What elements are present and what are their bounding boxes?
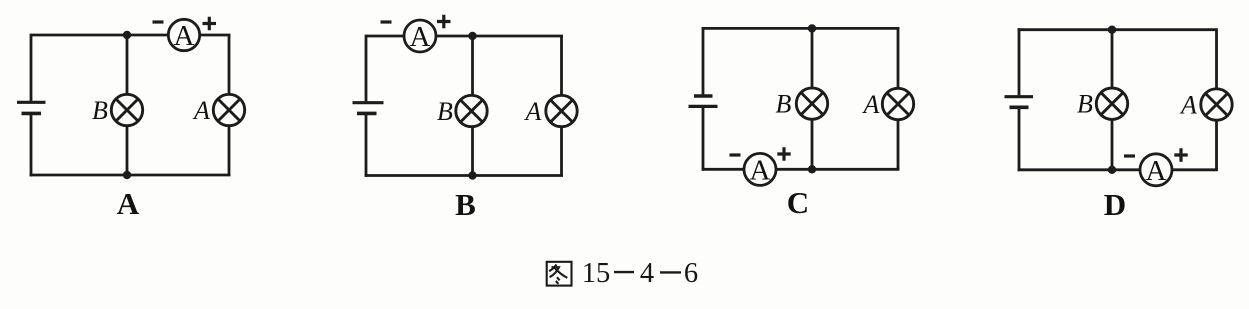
svg-text:B: B — [1077, 90, 1093, 119]
lamp A (circuit B) — [546, 95, 577, 126]
svg-text:C: C — [787, 185, 809, 220]
wire: bottom wire (circuit B) — [365, 174, 563, 177]
wire: top wire right segment (circuit B) — [436, 35, 563, 38]
wire: middle branch lower (circuit B) — [471, 127, 474, 176]
caption: first dash — [614, 271, 634, 273]
wire: bottom wire left segment (circuit C) — [702, 168, 744, 171]
wire: middle branch lower (circuit C) — [811, 119, 814, 169]
label: minus sign of ammeter (circuit D) — [1124, 154, 1135, 157]
ammeter A1 (circuit C) — [744, 153, 776, 186]
svg-text:A: A — [117, 186, 140, 221]
wire: top wire left segment (circuit A) — [31, 34, 169, 37]
wire: right wire upper (circuit B) — [560, 36, 563, 96]
svg-text:A: A — [410, 21, 431, 53]
ammeter A1 (circuit A) — [168, 19, 199, 52]
label: plus sign of ammeter (circuit A) — [203, 17, 217, 30]
node: bottom junction dot (circuit C) — [808, 165, 816, 173]
wire: bottom wire right segment (circuit C) — [776, 168, 899, 171]
wire: top wire left segment (circuit B) — [366, 35, 404, 38]
caption: second dash — [660, 271, 681, 273]
wire: left wire lower (circuit B) — [365, 115, 368, 177]
ammeter A1 (circuit B) — [404, 20, 436, 53]
svg-text:A: A — [1179, 91, 1197, 120]
svg-text:A: A — [750, 154, 771, 186]
caption: hanzi TU (figure) drawn as paths — [547, 262, 572, 286]
svg-text:B: B — [92, 96, 108, 125]
label: minus sign of ammeter (circuit A) — [153, 20, 164, 23]
wire: right wire lower (circuit B) — [560, 127, 563, 176]
wire: middle branch upper (circuit A) — [126, 35, 129, 95]
wire: bottom wire (circuit A) — [30, 174, 231, 177]
wire: top wire (circuit C) — [702, 27, 900, 30]
svg-text:A: A — [192, 96, 210, 125]
wire: right wire upper (circuit D) — [1215, 30, 1218, 89]
wire: right wire upper (circuit A) — [228, 35, 231, 95]
node: top junction dot (circuit C) — [808, 24, 816, 32]
wire: right wire lower (circuit C) — [897, 120, 900, 170]
wire: right wire lower (circuit A) — [228, 126, 231, 176]
svg-text:B: B — [455, 187, 476, 222]
svg-text:6: 6 — [684, 258, 698, 289]
wire: left wire upper (circuit B) — [365, 35, 368, 102]
svg-text:A: A — [524, 97, 542, 126]
battery G1 (circuit A): long plate — [17, 101, 46, 104]
wire: left wire upper (circuit C) — [702, 27, 705, 95]
battery G1 (circuit A): short plate — [22, 112, 42, 116]
battery G1 (circuit D): long plate (top) — [1005, 95, 1034, 98]
svg-text:B: B — [437, 97, 453, 126]
battery G1 (circuit D): short plate (bottom) — [1010, 106, 1029, 110]
wire: middle branch lower (circuit A) — [126, 126, 129, 176]
svg-text:A: A — [1146, 155, 1167, 187]
svg-text:A: A — [174, 20, 195, 52]
lamp A (circuit C) — [882, 88, 913, 119]
wire: bottom wire right segment (circuit D) — [1172, 168, 1218, 171]
label: plus sign of ammeter (circuit B) — [437, 15, 451, 28]
node: top junction dot (circuit A) — [123, 31, 131, 39]
wire: top wire right segment (circuit A) — [200, 34, 231, 37]
wire: middle branch upper (circuit C) — [811, 28, 814, 88]
svg-text:4: 4 — [640, 258, 654, 289]
lamp B (circuit A) — [111, 94, 142, 125]
wire: left wire upper (circuit D) — [1018, 28, 1021, 95]
wire: right wire upper (circuit C) — [897, 28, 900, 88]
svg-text:D: D — [1104, 187, 1126, 222]
battery G1 (circuit B): short plate — [357, 112, 377, 116]
wire: right wire lower (circuit D) — [1215, 120, 1218, 170]
battery G1 (circuit B): long plate — [353, 101, 384, 104]
wire: top wire (circuit D) — [1018, 28, 1218, 31]
ammeter A1 (circuit D) — [1140, 154, 1172, 187]
label: minus sign of ammeter (circuit C) — [730, 153, 741, 156]
wire: left wire lower (circuit C) — [702, 108, 705, 171]
lamp B (circuit C) — [796, 88, 827, 119]
wire: middle branch upper (circuit B) — [471, 36, 474, 96]
svg-text:15: 15 — [582, 258, 611, 289]
node: bottom junction dot (circuit D) — [1108, 166, 1116, 174]
lamp A (circuit A) — [213, 94, 244, 125]
wire: bottom wire left segment (circuit D) — [1018, 168, 1140, 171]
svg-text:A: A — [862, 90, 880, 119]
node: top junction dot (circuit D) — [1108, 26, 1116, 34]
battery G1 (circuit C): short plate (top) — [694, 94, 713, 98]
lamp B (circuit D) — [1096, 88, 1127, 119]
lamp B (circuit B) — [456, 95, 487, 126]
label: minus sign of ammeter (circuit B) — [381, 20, 392, 23]
node: top junction dot (circuit B) — [468, 32, 476, 40]
label: plus sign of ammeter (circuit D) — [1174, 148, 1187, 161]
label: plus sign of ammeter (circuit C) — [777, 147, 790, 160]
battery G1 (circuit C): long plate (bottom) — [689, 105, 718, 108]
lamp A (circuit D) — [1201, 89, 1232, 120]
node: bottom junction dot (circuit B) — [468, 171, 476, 179]
wire: middle branch upper (circuit D) — [1111, 30, 1114, 88]
wire: left wire upper (circuit A) — [30, 34, 33, 101]
node: bottom junction dot (circuit A) — [123, 171, 131, 179]
wire: left wire lower (circuit D) — [1018, 109, 1021, 172]
wire: left wire lower (circuit A) — [30, 115, 33, 177]
wire: middle branch lower (circuit D) — [1111, 120, 1114, 170]
svg-text:B: B — [776, 90, 792, 119]
